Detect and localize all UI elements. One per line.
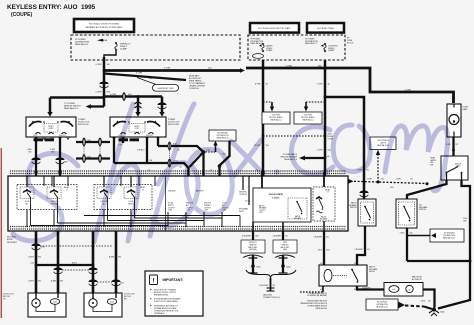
svg-text:SWITCH RH: SWITCH RH	[168, 124, 179, 126]
svg-text:15 AMP: 15 AMP	[120, 48, 128, 51]
svg-text:PAGE 8A-11-3: PAGE 8A-11-3	[271, 119, 282, 122]
dashed harness link row 3	[97, 281, 112, 283]
svg-text:SWITCH LH: SWITCH LH	[78, 124, 89, 126]
svg-text:2 BLK/WHT: 2 BLK/WHT	[314, 237, 322, 239]
connector comb top	[10, 170, 346, 172]
svg-text:796: 796	[266, 145, 269, 147]
wire: main vertical 4 ORN feed	[103, 57, 106, 107]
svg-text:CONSOLE: CONSOLE	[189, 88, 199, 90]
output column labels	[168, 190, 229, 212]
box: S/D interior lights	[370, 137, 396, 150]
relay unit: illum entry	[124, 187, 138, 206]
label hatch release relay	[369, 265, 378, 273]
label I/P POWER DISTRIBUTION PAGE 8A-10-2	[75, 39, 107, 46]
svg-text:4 ORN: 4 ORN	[95, 64, 102, 66]
wire: RH pin C drop	[146, 137, 148, 163]
label hatch release switch	[349, 201, 358, 209]
door lock motor RH	[84, 293, 122, 317]
svg-text:40: 40	[328, 84, 330, 86]
connector on motor wire B	[53, 267, 62, 273]
wire: LH pin 2 to receiver	[59, 137, 61, 191]
svg-text:4 ORN: 4 ORN	[110, 94, 117, 96]
connector comb bottom	[10, 226, 346, 228]
svg-text:451: 451	[367, 249, 370, 251]
svg-text:1: 1	[250, 267, 251, 269]
label hatch release actuator	[412, 275, 423, 280]
svg-text:451: 451	[326, 237, 329, 239]
wire: fuse output down	[104, 51, 116, 58]
wire: ORN courtesy feed down	[324, 60, 327, 176]
wire: receiver to motor RH (C)	[92, 231, 95, 293]
node on wire C	[92, 264, 95, 267]
connector on LH pin2 wire	[55, 157, 64, 163]
dashed connector links	[84, 140, 100, 159]
wire: arrow to rear hatch window release	[299, 156, 330, 161]
box: S/D ground distribution (mid)	[209, 130, 236, 141]
brace joining ground legs	[246, 270, 296, 278]
dashed arrow to interior lights	[376, 150, 380, 182]
svg-text:756: 756	[381, 178, 384, 180]
wire: receiver ground leg 1	[252, 231, 254, 240]
node wire A at comb	[261, 171, 264, 174]
svg-text:694: 694	[118, 257, 121, 259]
label I/P POWER DISTRIBUTION PAGE 8A-10-1 (courtesy)	[305, 38, 324, 47]
label A TAN 694	[109, 256, 121, 259]
oval: cluster	[253, 54, 264, 59]
labels ignition/program input	[239, 192, 249, 213]
svg-text:7098: 7098	[87, 140, 91, 142]
svg-text:7098: 7098	[120, 283, 124, 285]
svg-text:LAMP: LAMP	[463, 108, 469, 111]
hatch ajar switch	[396, 199, 417, 228]
svg-text:SWITCH: SWITCH	[419, 209, 427, 211]
svg-text:694: 694	[38, 257, 41, 259]
node LH pin1	[34, 170, 37, 173]
note: to rear hatch window release	[280, 153, 297, 161]
svg-text:4 GRN: 4 GRN	[50, 149, 56, 151]
wire: actuator return to ground	[423, 290, 435, 308]
connector on motor wire D	[111, 279, 120, 285]
svg-text:1056: 1056	[390, 187, 394, 189]
svg-text:LOGIC: LOGIC	[273, 197, 280, 199]
svg-text:RETAINED ACCESSORY POWER (RAP): RETAINED ACCESSORY POWER (RAP)	[85, 26, 122, 29]
svg-text:1056: 1056	[30, 263, 34, 265]
svg-text:1056: 1056	[255, 236, 259, 238]
svg-text:2 WHT: 2 WHT	[396, 178, 401, 180]
label 2 BLK/WHT 451	[242, 236, 259, 238]
header box: HOT IN RUN, BULB TEST OR START	[250, 23, 299, 33]
svg-text:ON INPUT: ON INPUT	[239, 194, 247, 196]
pin chips LH	[34, 138, 55, 141]
bus: upper RH to receiver	[158, 146, 204, 152]
svg-text:694: 694	[60, 281, 63, 283]
svg-text:C2: C2	[210, 170, 212, 172]
svg-text:BREAKER (ECB).: BREAKER (ECB).	[154, 293, 169, 296]
wire: branch right to RH switch	[104, 94, 138, 97]
box: S/D fuse block details A	[262, 112, 290, 124]
svg-text:1036: 1036	[463, 220, 467, 222]
wire: dome to hatch open switch	[452, 137, 454, 156]
svg-text:4 ORN: 4 ORN	[95, 92, 102, 94]
node junction S	[202, 150, 206, 154]
arrow into fuse details A	[270, 102, 274, 112]
connector pair on RH drop	[135, 102, 142, 108]
svg-text:PWR ACCY: PWR ACCY	[120, 42, 131, 45]
label A GRY 694	[29, 256, 41, 259]
connector on upper bus	[83, 138, 86, 146]
svg-text:A TAN: A TAN	[51, 280, 57, 283]
arrow into ground distribution box	[213, 141, 217, 152]
svg-text:INPUT: INPUT	[239, 211, 244, 213]
fuse: COURTESY FUSE 8 10 AMP	[324, 43, 339, 52]
svg-text:LOW: LOW	[168, 210, 172, 212]
wire: 2 WHT branch to hatch release switch	[324, 96, 369, 199]
arrow into fuse details B	[304, 102, 308, 112]
divider line inside receiver	[165, 176, 167, 231]
svg-text:2 ORN: 2 ORN	[317, 150, 323, 152]
watermark shbox.com	[13, 104, 448, 242]
svg-text:#3: #3	[327, 192, 329, 194]
dashed: junction to ground distribution	[206, 151, 216, 153]
connector on motor wire C lower	[88, 279, 97, 285]
hatch release switch	[358, 199, 376, 226]
svg-text:C3: C3	[354, 263, 356, 265]
ground G400 right	[421, 301, 445, 317]
label 2 BLK 1056	[318, 250, 330, 252]
svg-text:G400: G400	[286, 267, 290, 269]
dashed 2 WHT bus	[349, 178, 429, 189]
pin chips RH	[119, 138, 140, 141]
bus: lower RH to receiver	[114, 163, 189, 183]
note: to power mirror switch	[64, 103, 81, 110]
svg-text:S/D GROUND: S/D GROUND	[377, 302, 388, 304]
svg-text:640: 640	[328, 150, 331, 152]
svg-text:450: 450	[410, 233, 413, 235]
pin marks under switch boxes	[35, 137, 160, 140]
wire: hatch release switch down to relay	[355, 226, 370, 265]
svg-text:10 AMP: 10 AMP	[266, 49, 273, 52]
svg-text:SWITCH: SWITCH	[350, 207, 357, 209]
connector on hatch release feed	[359, 190, 368, 196]
wire: receiver to door lock motor LH (A)	[35, 231, 38, 293]
note box: with remote hatch release	[273, 240, 297, 253]
svg-text:PAGE 8A-10-1: PAGE 8A-10-1	[251, 42, 263, 45]
svg-text:A GRY: A GRY	[29, 280, 35, 283]
note: ground path through transmission	[300, 300, 328, 310]
wire: ground distribution right leg	[220, 141, 230, 183]
connector on lower bus	[83, 155, 86, 163]
svg-text:HOT IN ACCY, RUN OR DURING: HOT IN ACCY, RUN OR DURING	[89, 23, 119, 26]
svg-text:HOT AT ALL TIMES: HOT AT ALL TIMES	[317, 27, 334, 30]
svg-text:451: 451	[285, 236, 288, 238]
connector C204 on branch	[123, 93, 126, 101]
wire: junction down to receiver	[202, 152, 204, 183]
wire: receiver to motor LH (B)	[57, 231, 60, 293]
svg-text:MOM'T: MOM'T	[48, 126, 53, 128]
inter-switch bus upper	[76, 141, 110, 143]
wire: data link connector drop	[259, 278, 275, 291]
svg-text:SOL: SOL	[392, 289, 395, 291]
connector C on 4 ORN feed	[99, 81, 108, 87]
wire: hatch open sw to lid release switch	[407, 180, 447, 199]
relay #2 dashed box	[94, 185, 152, 210]
svg-text:KEYLESS ENTRY: AUO 1995: KEYLESS ENTRY: AUO 1995	[7, 4, 96, 11]
svg-text:#1: #1	[66, 189, 68, 191]
svg-text:450: 450	[428, 301, 431, 303]
wire: receiver ground leg 2	[282, 231, 284, 240]
dashed branch to fuse details A	[263, 101, 272, 103]
scan artifact red line	[0, 148, 2, 318]
svg-text:PAGE 8A-14-12: PAGE 8A-14-12	[443, 236, 455, 239]
svg-text:#2: #2	[142, 189, 144, 191]
dashed box: I/P power distribution (left)	[71, 35, 240, 60]
svg-text:RELAY: RELAY	[369, 270, 376, 273]
svg-text:2 BLK/WHT: 2 BLK/WHT	[273, 236, 281, 238]
wire: receiver to hatch release relay coil	[323, 231, 325, 265]
svg-text:OUTPUT: OUTPUT	[259, 210, 266, 212]
svg-text:PAGE 8A-147-0: PAGE 8A-147-0	[64, 107, 79, 110]
label rear hatch switch	[431, 156, 437, 166]
hatch open switch	[441, 156, 468, 180]
wire: right edge 2 BLK return	[407, 180, 472, 309]
svg-text:ACTUATOR: ACTUATOR	[412, 278, 422, 281]
svg-text:CONT.: CONT.	[135, 128, 140, 130]
svg-text:REMOTE: REMOTE	[250, 244, 257, 246]
svg-text:IF MOTOR IS OVERLOADED.: IF MOTOR IS OVERLOADED.	[154, 300, 179, 303]
svg-text:25 BLK/WHT: 25 BLK/WHT	[242, 236, 251, 238]
relay unit: unlock driver	[47, 187, 61, 206]
relay #3 dashed box	[313, 187, 335, 221]
box: S/D ground distribution (right)	[430, 229, 464, 242]
svg-text:698: 698	[318, 65, 321, 67]
labels orange / tan wires	[307, 292, 327, 297]
svg-text:LOW: LOW	[259, 212, 263, 214]
label I/P FUSE BLOCK	[347, 37, 354, 44]
connector on second RH drop	[157, 102, 166, 108]
labels LH drop wires	[27, 149, 56, 153]
svg-text:10 AMP: 10 AMP	[328, 49, 335, 52]
label A GRY 695	[29, 280, 41, 283]
connector on lower bus	[99, 155, 102, 163]
wire: LH pin 1 to receiver	[35, 137, 37, 191]
wire: sloped 3 ORN taped wire	[104, 72, 186, 80]
dashed harness link row 2	[62, 269, 89, 271]
svg-text:2 BLK: 2 BLK	[400, 233, 406, 235]
callout: CHEVROLET ONLY	[137, 78, 179, 92]
svg-text:REL.: REL.	[431, 162, 435, 164]
node at RH drop	[137, 95, 140, 98]
svg-text:756: 756	[410, 178, 413, 180]
svg-text:!: !	[152, 277, 154, 284]
label power door lock switch RH	[168, 119, 180, 126]
wire: down into RH switch	[137, 97, 140, 114]
svg-text:UNLOCK: UNLOCK	[59, 135, 67, 137]
wire: BRN gages feed down	[262, 60, 265, 176]
node S207 dome conn	[324, 134, 334, 141]
label 2 BLK/WHT 451	[273, 236, 288, 238]
svg-text:PAGE 8A-14-12: PAGE 8A-14-12	[217, 137, 229, 140]
label 2 ORN 640	[317, 150, 331, 152]
svg-text:540: 540	[327, 156, 330, 158]
connector on LH pin1 wire	[31, 157, 40, 163]
svg-text:G400: G400	[256, 267, 260, 269]
ground stud leg 2	[279, 255, 291, 273]
svg-text:453: 453	[273, 285, 276, 287]
svg-text:C1: C1	[148, 170, 150, 172]
power door lock switch LH	[26, 117, 76, 137]
wire: down into LH switch	[49, 98, 52, 114]
svg-text:20 BLK/WHT: 20 BLK/WHT	[259, 285, 268, 287]
label 2 BLK 450	[400, 233, 413, 235]
svg-text:3 ORN: 3 ORN	[136, 72, 143, 74]
node LH pin2	[58, 170, 61, 173]
ground stud leg 1	[249, 255, 261, 273]
svg-text:UNLOCK: UNLOCK	[146, 135, 154, 137]
labels RH bus wires	[118, 143, 227, 169]
svg-text:2 WHT: 2 WHT	[367, 178, 372, 180]
connector on motor wire A	[31, 243, 40, 249]
svg-text:REMOTE: REMOTE	[282, 244, 289, 246]
svg-text:A GRY: A GRY	[29, 256, 35, 259]
label data link connector	[263, 293, 280, 298]
wire: stub to power mirror note	[86, 104, 105, 109]
entry arrow RH switch	[135, 112, 140, 117]
cross bus A GRY	[36, 262, 93, 265]
node on wire A	[35, 264, 38, 267]
svg-text:8 PNK: 8 PNK	[255, 84, 261, 86]
brace under note box 1	[243, 255, 263, 258]
connector on motor wire C upper	[88, 267, 97, 273]
svg-text:2 ORN: 2 ORN	[405, 89, 411, 91]
label 4 ORN 698	[95, 92, 110, 94]
keyless entry receiver box	[8, 176, 348, 231]
box: S/D ground distribution (bottom)	[366, 299, 432, 310]
svg-text:SWITCH: SWITCH	[455, 163, 462, 165]
svg-text:(COUPE): (COUPE)	[11, 12, 32, 18]
wire: RH pin A drop	[113, 137, 115, 163]
label power door lock switch LH	[78, 119, 90, 126]
connector on upper RH bus	[168, 142, 171, 150]
svg-text:695: 695	[38, 281, 41, 283]
box: S/D fuse block details B	[294, 112, 322, 124]
wire: relay output to actuator	[357, 286, 384, 290]
svg-text:CONNECTOR (DLC): CONNECTOR (DLC)	[263, 297, 280, 299]
svg-text:C2: C2	[328, 175, 330, 177]
connector on upper bus	[99, 138, 102, 146]
svg-text:TERMINALS.: TERMINALS.	[154, 312, 165, 315]
internal wire stubs	[27, 172, 324, 231]
note box: without remote hatch release	[241, 240, 265, 253]
wire: heavy 2 ORN horizontal to right	[104, 68, 245, 73]
brace under note box 2	[275, 255, 295, 258]
solid-state logic box	[253, 188, 311, 222]
label 8 PNK 39	[255, 84, 268, 86]
label 2 BLK/WHT 451	[314, 237, 329, 239]
label door lock motor LH	[3, 294, 15, 301]
node on right leg	[218, 164, 222, 168]
dashed link between RH bus connectors	[169, 151, 171, 159]
power door lock switch RH	[110, 117, 166, 137]
svg-text:A TAN: A TAN	[109, 256, 115, 259]
node on gages feed	[262, 135, 265, 138]
dashed wire: relay ground path	[300, 286, 323, 292]
header box: HOT IN ACCY, RUN OR DURING RAP	[74, 19, 134, 32]
important note box	[145, 271, 203, 316]
wire: ajar switch to ground	[406, 228, 408, 261]
svg-text:WITHOUT: WITHOUT	[249, 242, 256, 244]
wire: junction diagonal to receiver	[190, 153, 203, 167]
wire: receiver to motor RH (D)	[115, 231, 118, 293]
svg-text:2 ORN: 2 ORN	[164, 68, 171, 70]
svg-text:PAGE 8A-10-2: PAGE 8A-10-2	[75, 43, 89, 46]
inter-switch bus lower	[76, 157, 110, 159]
header box: HOT AT ALL TIMES	[307, 23, 344, 33]
note: auxiliary accessory wire	[189, 75, 206, 91]
svg-text:ILLUM.: ILLUM.	[128, 201, 134, 203]
svg-text:1056: 1056	[326, 250, 330, 252]
svg-text:HOT IN RUN, BULB TEST OR START: HOT IN RUN, BULB TEST OR START	[258, 27, 291, 30]
fuse: GAGES FUSE 4 10 AMP	[262, 43, 273, 52]
svg-text:2 ORN: 2 ORN	[286, 65, 292, 67]
svg-text:2 BLK/WHT: 2 BLK/WHT	[355, 249, 363, 251]
svg-text:BLOCK: BLOCK	[347, 42, 354, 44]
wire: RH pin B stub	[122, 137, 124, 143]
entry arrow LH switch	[47, 112, 52, 117]
dashed harness link row 1	[40, 245, 112, 247]
svg-text:MOM'T: MOM'T	[134, 126, 139, 128]
svg-text:8 OR BLU: 8 OR BLU	[137, 150, 145, 152]
svg-text:CHEVROLET ONLY: CHEVROLET ONLY	[157, 88, 175, 90]
svg-text:PAGE 8A-114-6: PAGE 8A-114-6	[377, 144, 389, 147]
node S1 on 4 ORN feed	[103, 69, 106, 72]
label hatch ajar switch	[419, 204, 428, 211]
svg-text:GROUND: GROUND	[168, 191, 176, 193]
hatch release actuator	[384, 283, 423, 297]
svg-text:754: 754	[179, 167, 182, 169]
dashed box: I/P fuse block	[248, 35, 345, 60]
relay unit: unlock all	[97, 187, 111, 206]
label 4 ORN 140	[95, 64, 110, 66]
svg-text:SOLID-STATE: SOLID-STATE	[269, 193, 284, 196]
svg-text:RECEIVER: RECEIVER	[7, 242, 17, 244]
label 25 PNK 796	[254, 145, 269, 147]
svg-text:1 ORN: 1 ORN	[317, 84, 323, 86]
entry arrow RH switch 2	[159, 112, 164, 117]
svg-text:PAGE 8A-10-1: PAGE 8A-10-1	[305, 42, 317, 45]
wire: heavy 2 ORN to dome light	[246, 65, 454, 103]
node on dome wire	[452, 149, 455, 152]
svg-text:PAGE 8A-11-3: PAGE 8A-11-3	[303, 119, 314, 122]
relay unit: lock all	[20, 187, 34, 206]
door lock motor LH	[28, 293, 66, 317]
svg-text:DISTRIBUTION: DISTRIBUTION	[376, 304, 388, 306]
wire: extension to second RH drop	[138, 95, 162, 98]
label keyless entry receiver	[7, 236, 17, 244]
svg-text:7098: 7098	[64, 162, 68, 164]
wire: RH pin D drop	[157, 137, 159, 146]
svg-text:IMPORTANT:: IMPORTANT:	[163, 278, 184, 282]
svg-text:756: 756	[366, 170, 369, 172]
node S2 on 4 ORN feed	[103, 95, 106, 98]
relay #1 dashed box	[17, 185, 77, 210]
dome light	[447, 97, 469, 137]
svg-text:CONT.: CONT.	[49, 128, 54, 130]
fuse: PWR ACCY FUSE 2 15 AMP	[115, 42, 132, 51]
svg-text:7098: 7098	[87, 156, 91, 158]
label I/P POWER DISTRIBUTION PAGE 8A-10-1 (gages)	[251, 38, 264, 47]
svg-text:7098: 7098	[41, 247, 45, 249]
label door lock motor RH	[124, 294, 136, 301]
